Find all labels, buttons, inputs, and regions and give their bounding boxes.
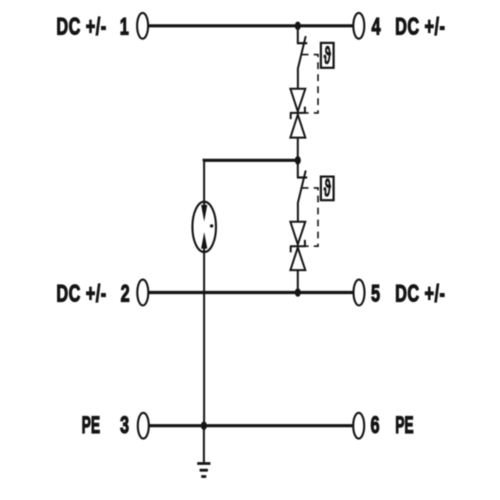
node J3 junction dot on middle wire <box>295 288 301 297</box>
svg-text:2: 2 <box>121 281 130 308</box>
suppressor diode V1 upper triangle <box>290 89 305 112</box>
thermal element box B2 <box>321 177 334 201</box>
wire from J1 down to disconnect switch F1 <box>297 26 299 44</box>
svg-text:DC +/-: DC +/- <box>56 281 106 308</box>
label PE row3 left <box>82 412 100 439</box>
gas discharge tube G1 circle <box>192 202 216 252</box>
thermal disconnect switch F1 fixed contact bar <box>297 42 307 44</box>
suppressor diode V3 zener bar <box>290 240 306 253</box>
mechanical link dashed line F2 to thermal element <box>302 188 318 246</box>
G1 lower electrode arrow <box>201 232 207 249</box>
label 4 <box>371 13 380 40</box>
svg-text:PE: PE <box>82 412 100 439</box>
thermal element box B1 <box>321 43 334 68</box>
terminal 4 circle <box>353 13 364 39</box>
label DC +/- row2 left <box>56 281 106 308</box>
G1 gas-filled indicator dot <box>210 224 213 227</box>
mechanical link dashed line F1 to thermal element <box>302 55 318 113</box>
svg-text:DC +/-: DC +/- <box>56 13 106 40</box>
thermal disconnect switch F1 blade <box>298 36 306 89</box>
label DC +/- row1 right <box>395 13 445 40</box>
G1 upper electrode stem <box>203 202 205 208</box>
label 2 <box>121 281 130 308</box>
suppressor diode V4 lower triangle <box>290 248 305 271</box>
svg-text:PE: PE <box>395 412 413 439</box>
terminal 3 circle <box>138 413 149 439</box>
theta symbol in B1 <box>324 42 332 70</box>
label 6 <box>370 412 379 439</box>
node J2 junction dot on branch wire <box>295 156 301 165</box>
wire from J2 down to disconnect switch F2 <box>297 160 299 178</box>
wire W3 bottom PE (terminal 3 to terminal 6) <box>149 424 352 427</box>
node J4 junction dot on PE wire <box>201 421 207 430</box>
svg-text:DC +/-: DC +/- <box>395 13 445 40</box>
G1 upper electrode arrow <box>201 205 207 222</box>
earth ground symbol <box>197 464 210 477</box>
wire W2 middle (terminal 2 to terminal 5) <box>149 291 353 294</box>
terminal 6 circle <box>353 413 364 439</box>
svg-text:1: 1 <box>120 13 129 40</box>
terminal 2 circle <box>137 280 148 306</box>
svg-text:4: 4 <box>371 13 380 40</box>
svg-text:3: 3 <box>120 412 129 439</box>
svg-text:ϑ: ϑ <box>324 175 332 203</box>
thermal disconnect switch F2 fixed contact bar <box>297 176 307 178</box>
node J1 junction dot on top wire <box>295 22 301 31</box>
wire from branch down to gas discharge tube <box>203 160 205 206</box>
svg-text:ϑ: ϑ <box>324 42 332 70</box>
label DC +/- row2 right <box>395 281 445 308</box>
wire V2 to node J2 <box>297 138 299 161</box>
svg-text:5: 5 <box>371 281 380 308</box>
theta symbol in B2 <box>324 175 332 203</box>
suppressor diode V1 zener bar <box>290 107 306 120</box>
thermal disconnect switch F2 blade <box>298 171 306 222</box>
suppressor diode V2 lower triangle <box>290 115 305 138</box>
label PE row3 right <box>395 412 413 439</box>
terminal 1 circle <box>137 13 148 39</box>
wire from J4 down to earth symbol <box>203 426 205 463</box>
svg-text:DC +/-: DC +/- <box>395 281 445 308</box>
label 1 <box>120 13 129 40</box>
wire V4 to node J3 <box>297 270 299 292</box>
wire W4 branch from protection chain to gas discharge tube <box>204 159 298 163</box>
label 3 <box>120 412 129 439</box>
label 5 <box>371 281 380 308</box>
wire W1 top (terminal 1 to terminal 4) <box>148 24 352 27</box>
wire from G1 down to PE wire crossing W2 <box>203 246 205 426</box>
label DC +/- row1 left <box>56 13 106 40</box>
suppressor diode V3 upper triangle <box>290 222 305 245</box>
svg-text:6: 6 <box>370 412 379 439</box>
terminal 5 circle <box>354 280 365 306</box>
